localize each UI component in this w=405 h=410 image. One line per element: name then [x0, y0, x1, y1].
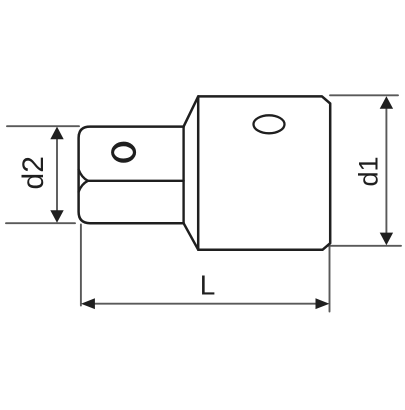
dimension L right extension line: [329, 244, 331, 312]
dimension d2 arrow down: [50, 210, 63, 223]
dimension L arrow left: [81, 298, 95, 309]
svg-text:d2: d2: [17, 156, 50, 189]
dimension d2 bottom extension line: [6, 222, 75, 224]
body outline: [198, 96, 330, 249]
dimension d1 line: [385, 108, 387, 234]
dimension d1 arrow down: [380, 233, 393, 246]
square drive edge mid line: [88, 180, 184, 182]
square drive cross hole inner: [114, 146, 133, 158]
dimension L arrow right: [316, 298, 330, 309]
cone chamfer line bottom: [184, 223, 199, 250]
square drive cross hole outer: [111, 142, 136, 163]
square drive end edge: [182, 127, 184, 224]
dimension d2 arrow up: [50, 127, 63, 140]
dimension d1 top extension line: [330, 94, 398, 96]
cone chamfer line top: [184, 96, 199, 126]
dimension L line: [93, 303, 317, 305]
dimension d1 bottom extension line: [327, 245, 401, 247]
body pin hole: [254, 115, 285, 133]
square drive outline: [79, 127, 184, 224]
svg-text:d1: d1: [354, 156, 384, 186]
dimension d2 top extension line: [7, 125, 79, 127]
svg-text:L: L: [200, 270, 216, 301]
square drive chamfer notch: [79, 170, 88, 192]
dimension d2 line: [56, 138, 58, 211]
dimension L left extension line: [80, 225, 82, 306]
dimension d1 arrow up: [380, 96, 393, 109]
